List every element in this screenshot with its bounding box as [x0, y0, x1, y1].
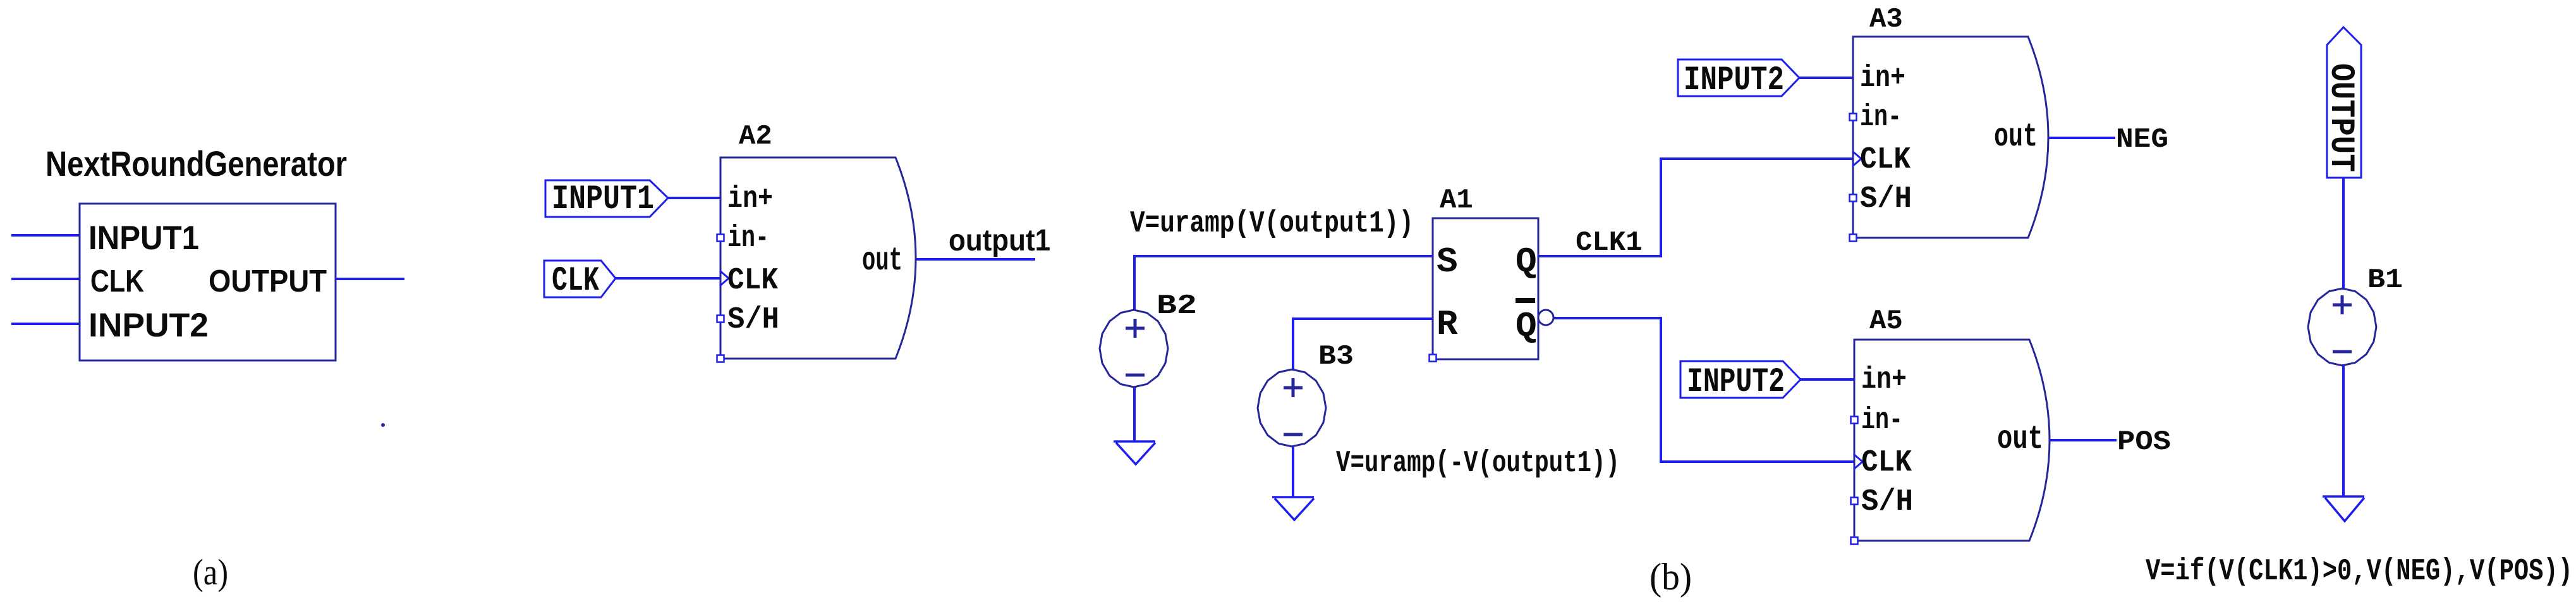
- svg-text:out: out: [862, 242, 902, 280]
- svg-text:V=uramp(-V(output1)): V=uramp(-V(output1)): [1336, 447, 1620, 481]
- svg-text:in+: in+: [727, 182, 773, 216]
- svg-text:S: S: [1437, 242, 1458, 282]
- svg-text:V=uramp(V(output1)): V=uramp(V(output1)): [1130, 207, 1414, 241]
- svg-text:out: out: [1997, 421, 2043, 458]
- svg-text:A1: A1: [1440, 185, 1473, 216]
- svg-text:A2: A2: [739, 121, 772, 152]
- svg-text:INPUT2: INPUT2: [1684, 61, 1784, 100]
- svg-text:out: out: [1994, 118, 2038, 156]
- svg-text:in+: in+: [1860, 61, 1905, 96]
- svg-text:(a): (a): [193, 552, 228, 593]
- svg-text:INPUT2: INPUT2: [1687, 363, 1785, 402]
- svg-text:(b): (b): [1649, 556, 1692, 598]
- svg-text:CLK: CLK: [90, 264, 144, 299]
- svg-text:Q: Q: [1516, 242, 1537, 282]
- svg-text:in-: in-: [727, 221, 769, 256]
- svg-text:B3: B3: [1318, 341, 1354, 373]
- svg-text:A5: A5: [1869, 305, 1903, 337]
- svg-text:A3: A3: [1869, 4, 1903, 35]
- svg-text:in-: in-: [1860, 101, 1902, 135]
- svg-text:CLK: CLK: [1861, 446, 1912, 480]
- svg-text:INPUT1: INPUT1: [552, 180, 654, 219]
- svg-text:Q: Q: [1516, 306, 1537, 347]
- svg-text:OUTPUT: OUTPUT: [209, 264, 327, 299]
- svg-text:CLK: CLK: [727, 264, 778, 298]
- svg-text:R: R: [1437, 304, 1458, 345]
- svg-text:B2: B2: [1157, 290, 1197, 322]
- svg-text:INPUT2: INPUT2: [88, 307, 209, 344]
- svg-text:POS: POS: [2117, 426, 2171, 458]
- svg-text:NextRoundGenerator: NextRoundGenerator: [46, 144, 347, 183]
- svg-text:S/H: S/H: [727, 303, 779, 337]
- svg-text:CLK: CLK: [552, 262, 599, 300]
- svg-text:S/H: S/H: [1861, 485, 1913, 519]
- svg-text:B1: B1: [2367, 264, 2403, 296]
- svg-text:output1: output1: [949, 224, 1050, 257]
- svg-text:V=if(V(CLK1)>0,V(NEG),V(POS)): V=if(V(CLK1)>0,V(NEG),V(POS)): [2146, 555, 2573, 589]
- svg-text:S/H: S/H: [1860, 182, 1912, 216]
- svg-text:INPUT1: INPUT1: [88, 219, 199, 257]
- svg-text:in-: in-: [1861, 404, 1903, 438]
- svg-text:CLK1: CLK1: [1576, 227, 1643, 259]
- svg-text:CLK: CLK: [1860, 143, 1911, 177]
- svg-text:OUTPUT: OUTPUT: [2321, 63, 2360, 172]
- svg-text:in+: in+: [1861, 363, 1907, 397]
- svg-text:NEG: NEG: [2116, 124, 2168, 156]
